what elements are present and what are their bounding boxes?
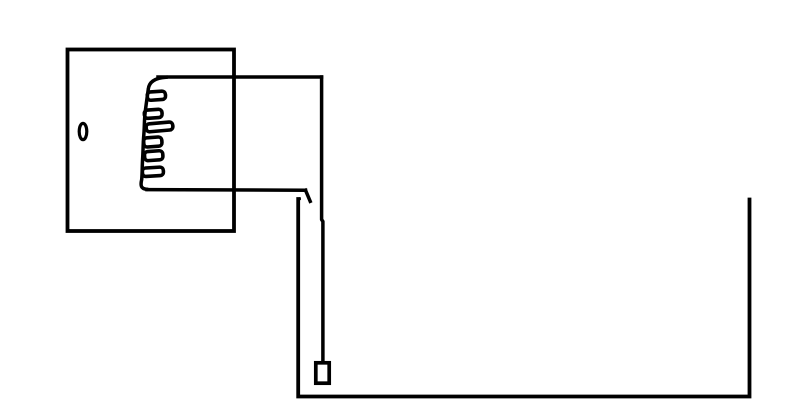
coil L1 loop 5 <box>144 151 163 161</box>
electrode <box>316 363 329 383</box>
coil L1 spine <box>141 77 166 189</box>
box (coil housing) <box>68 50 235 232</box>
container left wall top nub <box>299 197 301 200</box>
coil L1 loop 3 (wide) <box>146 122 173 132</box>
coil L1 loop 4 <box>143 137 162 147</box>
wire: vertical drop to electrode (with slight jog) <box>322 77 323 361</box>
coil L1 loop 1 <box>147 91 166 101</box>
wire: bottom run from coil <box>147 188 306 192</box>
wire: top run from coil to corner <box>158 75 322 79</box>
coil L1 loop 6 <box>142 167 163 177</box>
container (tank) <box>298 199 749 397</box>
indicator oval <box>79 123 87 139</box>
coil L1 loop 2 <box>144 109 162 119</box>
wire: bottom hook end <box>306 190 311 201</box>
